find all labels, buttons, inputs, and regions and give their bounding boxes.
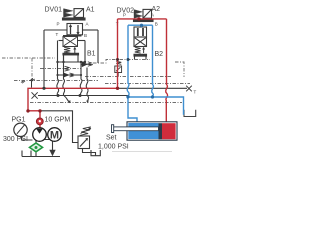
- svg-text:M: M: [50, 130, 59, 142]
- svg-text:B2: B2: [155, 51, 164, 58]
- svg-text:P: P: [123, 12, 126, 17]
- svg-text:B: B: [84, 33, 87, 38]
- svg-text:10 GPM: 10 GPM: [45, 116, 71, 123]
- svg-text:P: P: [57, 22, 60, 27]
- svg-text:A1: A1: [86, 7, 95, 14]
- svg-text:T: T: [56, 32, 59, 37]
- svg-text:Set: Set: [106, 135, 117, 142]
- svg-text:A: A: [86, 22, 89, 27]
- svg-text:T: T: [194, 90, 197, 95]
- svg-text:B1: B1: [87, 51, 96, 58]
- svg-text:PG1: PG1: [12, 116, 26, 123]
- svg-text:B: B: [155, 22, 158, 27]
- svg-text:1,000 PSI: 1,000 PSI: [98, 144, 129, 151]
- svg-text:DV01: DV01: [45, 7, 63, 14]
